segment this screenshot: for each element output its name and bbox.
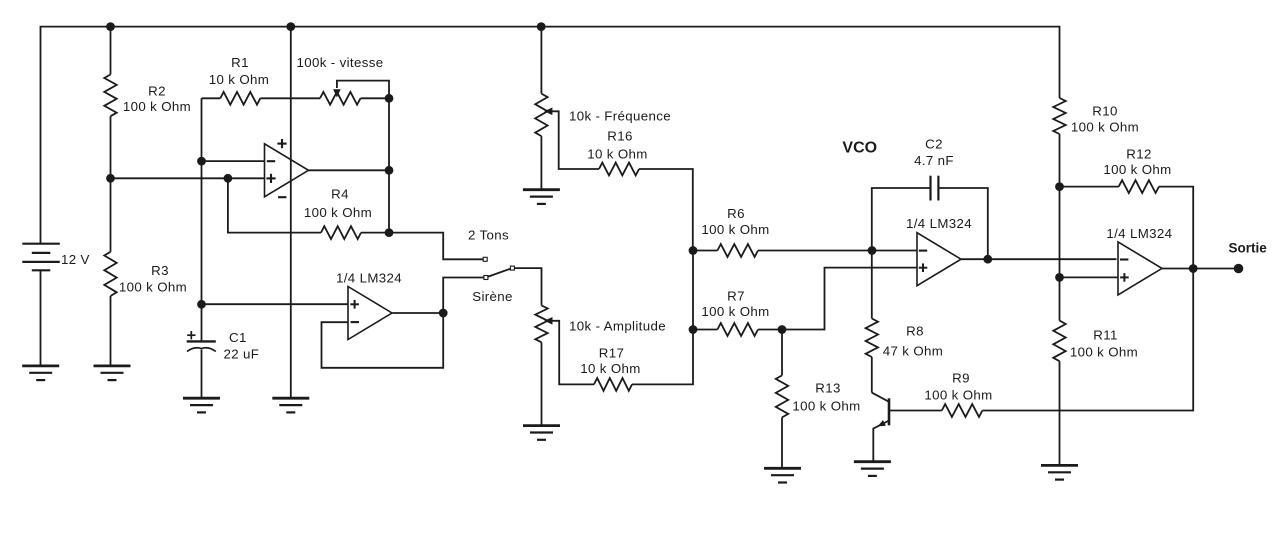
svg-text:100 k Ohm: 100 k Ohm [1070,345,1138,360]
svg-text:R3: R3 [151,263,169,278]
svg-text:100 k Ohm: 100 k Ohm [701,304,769,319]
svg-text:R4: R4 [331,186,349,201]
svg-text:100 k Ohm: 100 k Ohm [924,388,992,403]
svg-text:22 uF: 22 uF [224,347,260,362]
svg-text:1/4 LM324: 1/4 LM324 [1106,226,1172,241]
svg-text:100 k Ohm: 100 k Ohm [304,205,372,220]
svg-text:R12: R12 [1126,147,1151,162]
svg-text:R8: R8 [906,324,924,339]
svg-text:100 k Ohm: 100 k Ohm [123,99,191,114]
svg-text:R17: R17 [599,346,624,361]
svg-text:10k - Fréquence: 10k - Fréquence [569,109,671,124]
svg-text:R11: R11 [1093,328,1117,343]
svg-text:R16: R16 [607,129,632,144]
svg-text:100 k Ohm: 100 k Ohm [119,280,187,295]
svg-text:R10: R10 [1092,104,1117,119]
svg-text:10 k Ohm: 10 k Ohm [587,147,647,162]
svg-text:VCO: VCO [842,140,877,157]
svg-text:2 Tons: 2 Tons [468,228,509,243]
svg-text:Sortie: Sortie [1229,241,1268,256]
svg-text:100 k Ohm: 100 k Ohm [1071,120,1139,135]
svg-text:100 k Ohm: 100 k Ohm [701,222,769,237]
svg-text:C2: C2 [925,137,943,152]
svg-text:100k - vitesse: 100k - vitesse [297,55,384,70]
svg-text:100 k Ohm: 100 k Ohm [1103,162,1171,177]
svg-text:R6: R6 [727,206,745,221]
svg-text:R13: R13 [815,381,840,396]
svg-text:C1: C1 [229,330,247,345]
svg-text:100 k Ohm: 100 k Ohm [792,399,860,414]
svg-text:R1: R1 [231,55,249,70]
svg-text:R7: R7 [727,289,745,304]
svg-text:Sirène: Sirène [472,289,513,304]
svg-text:47 k Ohm: 47 k Ohm [883,344,943,359]
svg-text:R9: R9 [952,371,970,386]
svg-text:1/4 LM324: 1/4 LM324 [336,271,402,286]
svg-text:10k - Amplitude: 10k - Amplitude [569,318,666,333]
svg-text:4.7 nF: 4.7 nF [914,153,954,168]
svg-text:R2: R2 [148,83,166,98]
svg-text:10 k Ohm: 10 k Ohm [209,72,269,87]
svg-text:1/4 LM324: 1/4 LM324 [906,216,972,231]
svg-text:10 k Ohm: 10 k Ohm [580,361,640,376]
svg-text:12 V: 12 V [61,252,90,267]
